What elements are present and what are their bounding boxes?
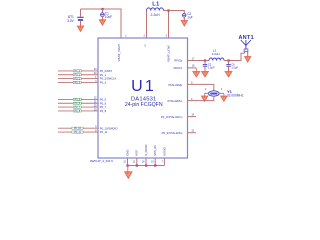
svg-text:L1: L1 [152,2,160,8]
svg-text:P0_11: P0_11 [74,131,81,134]
node junction at L1 right [167,9,169,11]
node junction on rail at C1 [101,8,103,10]
wire P0_5 [58,98,98,100]
svg-text:P0_11: P0_11 [100,130,108,134]
wire stub 5 [163,158,165,166]
wire P0_10 [58,127,98,129]
node P0_10 net label [72,127,83,130]
ground (C2) [181,17,187,26]
svg-text:#WKUP_2_IN3 9: #WKUP_2_IN3 9 [90,159,113,163]
svg-text:GND: GND [125,150,129,156]
ground (C6) [225,66,232,77]
ground (ANT1) [245,52,251,62]
wire RFIOm [188,67,197,69]
svg-text:P0_10: P0_10 [74,127,82,130]
svg-text:P0_3: P0_3 [75,81,81,84]
wire stub 3 [145,158,147,166]
node P0_5 net label [73,98,81,101]
svg-text:RFIOp: RFIOp [174,59,182,63]
wire L1 left lead to chip pin 2 [146,11,148,39]
svg-text:1.5pF: 1.5pF [231,65,238,69]
node P0_7 net label [73,106,81,109]
wire P0_6 [58,102,98,104]
IC U1 DA14531 [98,38,188,158]
wire P0_11 [58,131,98,133]
battery BT1 [67,9,83,27]
wire P0_3 [58,81,98,83]
inductor L1 [147,2,164,17]
svg-text:P0_7: P0_7 [75,106,81,109]
ground (Y1 right) [221,93,227,101]
svg-text:1.5pF: 1.5pF [208,65,215,69]
wire P0_4/XTAL32Km stub [188,116,197,118]
capacitor C2 [182,12,192,21]
svg-text:P0_1: P0_1 [75,74,81,77]
node P0_6 net label [73,102,81,105]
svg-text:P0_6: P0_6 [75,102,81,105]
svg-text:3.3nH: 3.3nH [212,52,220,56]
svg-text:2.2uH: 2.2uH [151,13,161,17]
svg-text:V_DCDC: V_DCDC [144,144,148,156]
node P0_0 net label [73,70,81,73]
wire P0_2 [58,78,98,80]
svg-text:P0_5: P0_5 [100,98,107,102]
inductor L2 [206,48,224,60]
svg-text:RFIOm: RFIOm [174,66,183,70]
svg-text:1uF: 1uF [187,15,193,19]
wire stub 4 [154,158,156,166]
crystal Y1 [205,88,244,98]
svg-text:P0_0: P0_0 [75,70,81,73]
svg-text:P0_3: P0_3 [100,81,107,85]
svg-text:P0_0/RST: P0_0/RST [100,69,113,73]
svg-text:P0_5: P0_5 [75,98,81,101]
svg-text:P0_2/SWCLK: P0_2/SWCLK [100,77,117,81]
ground (C5) [202,66,209,77]
svg-text:VSS_RF: VSS_RF [153,145,157,156]
svg-text:P0_2: P0_2 [75,78,81,81]
svg-text:P0_8: P0_8 [75,110,81,113]
svg-text:U1: U1 [131,78,156,95]
svg-text:VSSIO: VSSIO [162,146,166,155]
svg-text:P0_1: P0_1 [100,73,107,77]
ground (C1) [99,17,105,26]
wire L1 right lead to VBAT_LOW pin [164,11,169,39]
wire bottom bus [128,165,165,167]
wire XTAL32Mp [188,84,214,90]
svg-text:3.0V: 3.0V [67,19,74,23]
svg-text:24-pin FCGQFN: 24-pin FCGQFN [125,102,163,108]
wire P0_0 [58,70,98,72]
node P0_3 net label [73,81,81,84]
wire top rail from battery to VBAT_HIGH pin [81,9,122,38]
node P0_1 net label [73,74,81,77]
wire VSS stub 1 [127,158,129,166]
node junctions bottom bus [126,164,128,166]
svg-text:P0_4/XTAL32Km: P0_4/XTAL32Km [161,115,183,119]
svg-text:VSS: VSS [135,150,139,156]
svg-text:P0_6: P0_6 [100,101,107,105]
capacitor C1 [101,9,113,21]
wire XTAL32Mm [188,96,214,101]
wire junction to C2 [169,11,185,14]
ground (Y1 left) [201,93,207,101]
svg-text:ANT1: ANT1 [239,35,254,41]
node junction RF2 [227,59,229,61]
capacitor C5 [203,61,215,73]
wire L2 to junction RF2 [224,53,245,60]
wire P0_9/XTAL32Kp stub [188,132,197,134]
svg-text:P0_7: P0_7 [100,105,107,109]
ground (RFIOm) [193,68,200,77]
svg-text:10uF: 10uF [105,15,112,19]
node junction RF1 [204,59,206,61]
svg-text:P0_8: P0_8 [100,109,107,113]
node P0_8 net label [73,110,81,113]
svg-text:P0_9/XTAL32Kp: P0_9/XTAL32Kp [162,131,183,135]
wire RFIOp [188,60,206,62]
svg-text:VBAT_LOW: VBAT_LOW [166,45,170,62]
wire P0_1 [58,74,98,76]
node P0_11 net label [72,131,83,134]
svg-text:XTAL32Mm: XTAL32Mm [167,99,183,103]
svg-text:P0_10/SWDIO: P0_10/SWDIO [100,126,118,130]
svg-text:XTAL32Mp: XTAL32Mp [168,83,183,87]
ground (bottom bus) [125,166,132,179]
antenna ANT1 [239,35,254,57]
capacitor C6 [226,61,238,73]
wire P0_8 [58,110,98,112]
ground (battery) [77,21,83,31]
wire P0_7 [58,106,98,108]
svg-text:VBAT_HIGH: VBAT_HIGH [117,44,121,61]
wire stub 2 [136,158,138,166]
node P0_2 net label [73,78,81,81]
svg-text:32.000MHz: 32.000MHz [227,94,244,98]
